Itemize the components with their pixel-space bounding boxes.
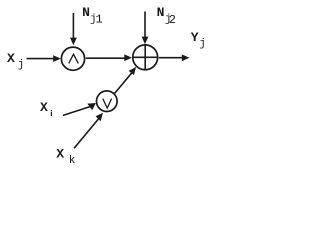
svg-text:N: N bbox=[82, 5, 90, 20]
svg-text:X: X bbox=[7, 51, 15, 66]
svg-text:2: 2 bbox=[169, 13, 176, 27]
svg-text:Y: Y bbox=[191, 30, 199, 45]
svg-text:N: N bbox=[157, 5, 165, 20]
svg-text:j: j bbox=[18, 59, 25, 71]
svg-text:k: k bbox=[69, 155, 76, 167]
svg-text:X: X bbox=[56, 146, 64, 161]
svg-text:1: 1 bbox=[96, 12, 103, 26]
svg-text:j: j bbox=[199, 38, 206, 50]
svg-text:i: i bbox=[50, 108, 52, 118]
svg-text:X: X bbox=[40, 100, 48, 115]
